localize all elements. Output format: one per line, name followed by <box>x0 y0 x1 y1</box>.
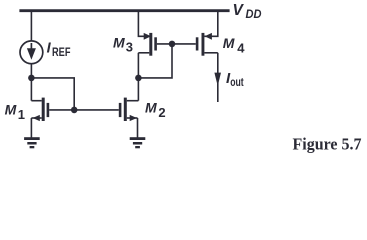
ground (M1 source) <box>24 137 40 148</box>
svg-text:DD: DD <box>246 7 262 21</box>
svg-text:V: V <box>233 2 245 19</box>
label Iout <box>226 70 244 89</box>
wire gate bus M1 to M2 <box>49 109 119 111</box>
wire gate M3 to M4 <box>157 43 196 45</box>
label M4 <box>223 35 246 55</box>
transistor M1 <box>31 98 49 138</box>
node C <box>135 75 142 82</box>
svg-text:3: 3 <box>126 39 133 54</box>
label M3 <box>113 35 133 55</box>
label IREF <box>47 41 71 59</box>
svg-text:M: M <box>113 35 125 51</box>
wire rail to IREF source <box>30 11 32 41</box>
svg-text:out: out <box>230 77 244 89</box>
svg-text:4: 4 <box>237 40 245 55</box>
node A <box>28 75 35 82</box>
label M2 <box>145 100 166 120</box>
current source IREF <box>20 41 43 64</box>
svg-text:M: M <box>5 101 17 117</box>
transistor M4 <box>196 33 218 56</box>
wire rail to M3 source <box>138 11 149 37</box>
transistor M2 <box>119 98 139 138</box>
wire M2 drain to M3 drain <box>137 53 139 101</box>
Iout arrow <box>214 73 221 86</box>
transistor M3 <box>138 33 157 56</box>
label M1 <box>5 101 25 122</box>
svg-text:M: M <box>223 35 235 51</box>
wire M4 drain / Iout <box>217 53 219 102</box>
wire rail to M4 source <box>204 11 218 37</box>
wire node C to gate node D <box>138 44 172 78</box>
ground (M2 source) <box>130 137 146 148</box>
svg-text:2: 2 <box>158 105 165 120</box>
label VDD <box>233 2 262 21</box>
wire node A to gate bus (diode connection) <box>31 78 74 110</box>
svg-text:M: M <box>145 100 157 116</box>
wire IREF to node A and M1 drain <box>30 64 32 101</box>
power rail VDD <box>19 9 229 12</box>
svg-text:REF: REF <box>52 47 71 59</box>
svg-text:Figure 5.7: Figure 5.7 <box>293 135 362 154</box>
node B (gate bus junction) <box>71 107 78 114</box>
node D <box>169 41 176 48</box>
svg-text:1: 1 <box>18 107 25 122</box>
